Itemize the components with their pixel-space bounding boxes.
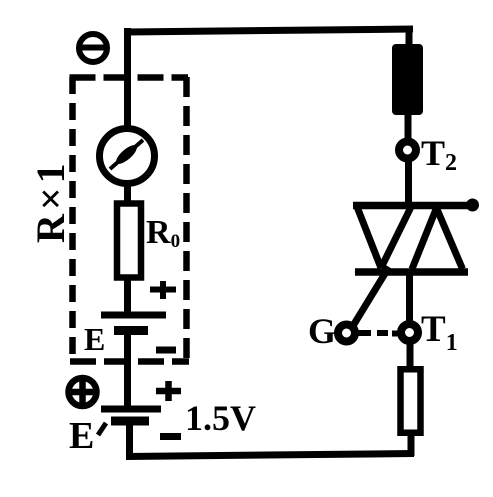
svg-text:T1: T1 xyxy=(421,309,458,356)
triac top bar end dot xyxy=(466,199,479,212)
wire right drop to fuse xyxy=(406,29,413,48)
wire left vertical top xyxy=(124,28,131,130)
battery E2 long plate xyxy=(101,406,161,413)
battery E short plate xyxy=(114,326,148,335)
dashed box top edge xyxy=(70,74,189,81)
triac left triangle left side xyxy=(358,208,382,268)
dashed link G stub xyxy=(357,330,371,336)
wire bottom right vertical xyxy=(408,433,415,456)
dashed box left edge xyxy=(69,77,76,363)
wire R0 to battery E xyxy=(124,275,131,313)
wire bottom left vertical xyxy=(126,423,133,454)
wire top horizontal xyxy=(124,29,413,32)
meter M xyxy=(100,129,155,184)
plus sign of E2 xyxy=(156,381,181,401)
svg-text:R0: R0 xyxy=(146,214,180,252)
svg-text:E: E xyxy=(69,415,94,457)
plus sign of E xyxy=(150,281,176,299)
wire meter to resistor R0 xyxy=(124,183,131,206)
wire fuse to T2 xyxy=(405,113,412,143)
svg-text:G: G xyxy=(308,311,336,351)
resistor R0 xyxy=(117,204,141,278)
svg-text:1.5V: 1.5V xyxy=(185,398,256,438)
resistor load xyxy=(401,369,421,433)
svg-text:T2: T2 xyxy=(421,133,457,176)
minus sign of E2 xyxy=(160,433,181,440)
wire T1 to resistor xyxy=(407,341,414,368)
wire T2 to triac xyxy=(405,159,412,207)
triac top bar xyxy=(353,202,477,210)
dashed box bottom edge xyxy=(70,358,189,365)
dashed box right edge xyxy=(183,77,190,362)
wire bottom horizontal xyxy=(126,454,414,457)
label E prime tick xyxy=(98,423,106,435)
terminal minus symbol xyxy=(79,34,107,62)
wire triac to T1 xyxy=(406,270,413,325)
fuse (filled element) xyxy=(392,44,423,115)
terminal plus symbol xyxy=(69,378,97,406)
battery E long plate xyxy=(101,312,166,319)
wire E to battery E2 xyxy=(124,333,131,407)
svg-text:E: E xyxy=(84,321,105,357)
dashed link T1 stub xyxy=(392,331,400,337)
terminal G xyxy=(338,325,355,342)
svg-text:R×1: R×1 xyxy=(28,159,73,243)
terminal T1 xyxy=(401,324,418,341)
triac bottom bar xyxy=(355,268,468,276)
gate lead diagonal xyxy=(354,267,390,325)
triac left triangle right side xyxy=(381,208,411,268)
terminal T2 xyxy=(399,142,416,159)
dashed link dash xyxy=(377,330,388,336)
triac right triangle right side xyxy=(437,208,463,269)
battery E2 short plate xyxy=(111,417,149,426)
triac right triangle left side xyxy=(412,208,437,269)
minus sign of E xyxy=(156,347,176,354)
